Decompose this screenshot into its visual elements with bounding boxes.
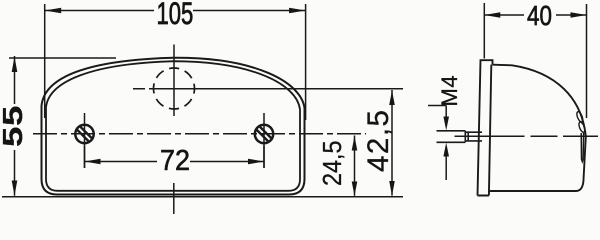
side view centerline (455, 135, 599, 137)
screw R slot lines (257, 127, 272, 141)
55 dim line (14, 56, 16, 196)
24,5 dim line (354, 136, 356, 196)
40 dim extension lines (484, 3, 586, 118)
lamp outer outline (front view) (42, 58, 305, 195)
arrowhead 55 up (12, 57, 18, 73)
arrowhead 105 left (45, 8, 62, 14)
105 dim line (45, 10, 306, 12)
svg-text:M4: M4 (437, 75, 462, 107)
svg-text:55: 55 (0, 105, 28, 147)
55 dim top extension line (9, 57, 116, 59)
screw L slot lines (77, 127, 92, 141)
lens screw side loops (576, 111, 584, 123)
arrowhead 42,5 up (389, 91, 395, 106)
arrowhead 105 right (289, 8, 306, 14)
baseline / bottom extension line (2, 196, 403, 198)
svg-text:72: 72 (160, 144, 190, 176)
side body outline (490, 65, 586, 191)
arrowhead 72 left (85, 159, 101, 165)
svg-text:42,5: 42,5 (362, 109, 395, 172)
72 dim extension lines (85, 146, 265, 168)
105 dim extension lines (45, 4, 306, 120)
lens screw tip pin (581, 133, 583, 162)
screw R vertical centerline (263, 113, 265, 168)
svg-text:105: 105 (157, 0, 194, 31)
arrowhead 72 right (248, 159, 264, 165)
bulb horizontal centerline / 42,5 extension line (133, 88, 403, 90)
lamp inner outline (lens edge) (46, 61, 300, 191)
42,5 dim line (391, 90, 393, 196)
screw centerline horizontal (33, 133, 366, 135)
arrowhead 24,5 down (352, 182, 358, 196)
arrowhead M4 down (443, 117, 449, 131)
screw L circle (75, 125, 93, 143)
arrowhead 55 down (12, 181, 18, 196)
arrowhead M4 up (443, 143, 449, 157)
M4 leader and arrows (428, 106, 446, 181)
screw L vertical centerline (84, 113, 86, 168)
flange plate (side view) (478, 60, 493, 195)
arrowhead 24,5 up (352, 136, 358, 151)
svg-text:24,5: 24,5 (319, 140, 347, 186)
40 dim line (484, 14, 586, 16)
arrowhead 40 left (484, 12, 500, 18)
M4 stud (437, 131, 483, 143)
arrowhead 42,5 down (389, 181, 395, 196)
svg-text:40: 40 (527, 1, 552, 32)
screw R circle (255, 125, 273, 143)
arrowhead 40 right (571, 12, 587, 18)
bulb vertical centerline (173, 45, 175, 215)
72 dim line (85, 161, 265, 163)
bulb dashed circle (154, 68, 195, 109)
